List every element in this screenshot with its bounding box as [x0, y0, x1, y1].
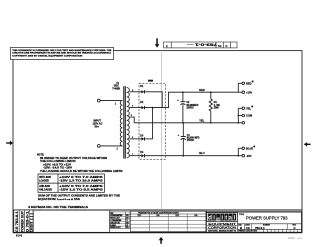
svg-text:TITLE: TITLE: [239, 214, 245, 216]
title block: [206, 212, 302, 233]
tap wire to D2 (pin 4): [129, 107, 141, 109]
blank field box: [33, 210, 110, 233]
drawing border: [13, 51, 302, 233]
svg-text:THIS SCHEMATIC IS FURNISHED ON: THIS SCHEMATIC IS FURNISHED ONLY FOR TES…: [12, 49, 112, 52]
label MR1 (smudged): [148, 80, 153, 82]
size code number rev row: [237, 223, 301, 225]
svg-text:COPYRIGHT 1969 BY DIGITAL EQUI: COPYRIGHT 1969 BY DIGITAL EQUIPMENT CORP…: [12, 54, 83, 57]
svg-text:15VDC: 15VDC: [187, 140, 195, 142]
svg-text:25VDC: 25VDC: [186, 108, 194, 110]
svg-text:-15V 1.0 TO 8.5 AMPS: -15V 1.0 TO 8.5 AMPS: [59, 189, 103, 192]
ghost smudge under border right: [288, 237, 295, 239]
svg-text:POWER SUPPLY 783: POWER SUPPLY 783: [246, 216, 288, 221]
svg-text:CIRCUITS ARE PROPRIETARY IN NA: CIRCUITS ARE PROPRIETARY IN NATURE AND S…: [12, 52, 111, 55]
svg-text:T-408B: T-408B: [112, 87, 120, 90]
svg-text:CS 783-0-1: CS 783-0-1: [15, 211, 19, 232]
wire D2 output to RED jog up: [145, 92, 183, 107]
svg-text:783-0-1 —: 783-0-1 —: [186, 42, 217, 46]
svg-text:-15V: -14.5 TO -16V: -15V: -14.5 TO -16V: [43, 166, 73, 169]
svg-text:+10V: +9.5 TO +11V: +10V: +9.5 TO +11V: [43, 165, 72, 167]
svg-text:SUM OF THE OUTPUT CURRENTS ARE: SUM OF THE OUTPUT CURRENTS ARE LIMITED B…: [38, 195, 121, 198]
transformer T1 secondary winding: [127, 88, 130, 158]
svg-text:NOTE:: NOTE:: [37, 155, 44, 157]
transistor & diode conversion chart: [130, 211, 206, 231]
inverted number strip (top edge): [164, 42, 237, 48]
bottom strip separator line: [13, 209, 302, 211]
svg-text:RED: RED: [199, 88, 205, 92]
center tap wire (pin 5) to YEL: [129, 117, 134, 123]
input terminal 1: [97, 99, 100, 102]
output bus riser top: [237, 83, 239, 92]
tap wire to D1 (pin 3): [129, 91, 141, 93]
equipment corporation rows: [207, 221, 238, 223]
note: sum of output currents: [38, 195, 121, 202]
svg-text:+10V: +10V: [246, 90, 252, 94]
diode D1: [140, 86, 144, 93]
svg-text:-15V 1.3 TO 10.0 AMPS: -15V 1.3 TO 10.0 AMPS: [59, 180, 103, 183]
capacitor C1: [178, 123, 200, 156]
terminal +10V: [238, 91, 242, 93]
svg-text:YEL: YEL: [246, 107, 251, 111]
fold marker arrow (bottom, pointing up): [159, 237, 164, 244]
output bus riser bottom: [237, 148, 239, 155]
digital logo: [207, 213, 238, 222]
reference drawings table: [110, 212, 130, 229]
transformer T1 primary winding: [120, 101, 122, 146]
svg-text:+10V 0 TO 7.0 AMPS: +10V 0 TO 7.0 AMPS: [59, 185, 103, 188]
transformer T1 core: [123, 86, 125, 158]
output bus riser middle: [237, 108, 239, 123]
resistor R1: [209, 92, 219, 123]
svg-text:-15V: -15V: [246, 154, 252, 158]
wire RED bus: [183, 91, 238, 93]
svg-text:LOADED: LOADED: [39, 180, 49, 183]
tap wire to D4 (pin 7): [129, 155, 141, 157]
svg-text:BLUE: BLUE: [246, 147, 253, 151]
wire input top: [100, 100, 122, 102]
wire input bottom: [100, 145, 122, 147]
rectifier assembly dashed box: [139, 83, 165, 159]
tap wire to D3 (pin 6): [129, 138, 141, 140]
svg-text:COM: COM: [246, 114, 252, 118]
notice box: [11, 47, 114, 59]
svg-text:THE LOADING SHOULD BE WITHIN T: THE LOADING SHOULD BE WITHIN THE FOLLOWI…: [40, 170, 123, 173]
junction D2/D3 riser: [152, 107, 154, 109]
svg-text:4 RETMA8 NO. ON THE TERMINALS: 4 RETMA8 NO. ON THE TERMINALS: [28, 206, 89, 209]
label INPUT 115V AC: [93, 120, 103, 129]
input terminal 2: [97, 145, 100, 148]
printed circuit rev row: [237, 228, 301, 230]
svg-text:WITH 8208: WITH 8208: [39, 177, 51, 179]
svg-text:RED: RED: [246, 82, 252, 86]
fold marker arrow (left, pointing right): [6, 141, 13, 145]
wire YEL bus: [134, 122, 238, 124]
svg-text:35,000MFD: 35,000MFD: [186, 105, 198, 107]
svg-text:AND 8208: AND 8208: [39, 185, 50, 188]
fold marker arrow (right, pointing left): [304, 142, 311, 146]
svg-text:EQUATION: I₊₁₀+I₋₁₅ ≤ 15A: EQUATION: I₊₁₀+I₋₁₅ ≤ 15A: [38, 198, 80, 201]
terminal -15V: [238, 155, 242, 157]
svg-text:25W: 25W: [214, 108, 220, 110]
svg-text:2, 5%: 2, 5%: [214, 105, 220, 107]
svg-text:8 3·8: 8 3·8: [16, 234, 22, 238]
svg-text:WIRED ASSY: WIRED ASSY: [110, 226, 121, 229]
svg-text:POWER SUP: POWER SUP: [21, 210, 25, 232]
capacitor C2: [177, 92, 199, 123]
loading limits table: [38, 174, 105, 192]
wire D1 output jog down: [145, 92, 162, 108]
svg-text:THE FOLLOWING LIMITS:: THE FOLLOWING LIMITS:: [40, 161, 76, 163]
diode D3: [140, 135, 144, 140]
transformer T1 label: [112, 82, 120, 91]
svg-text:d: d: [208, 215, 212, 221]
note text block: [37, 155, 123, 174]
fold crease line (vertical): [161, 52, 163, 209]
terminal spare: [238, 122, 242, 124]
drawing number vertical block (bottom-left): [14, 210, 34, 233]
bottom border emphasis: [13, 232, 302, 234]
terminal RED: [238, 82, 242, 84]
svg-text:BLU: BLU: [199, 151, 204, 155]
svg-text:+10V 0 TO 7.0 AMPS: +10V 0 TO 7.0 AMPS: [59, 176, 103, 179]
svg-text:783: 783: [126, 227, 129, 229]
terminal BLUE: [238, 147, 242, 149]
wire BLU bus: [145, 155, 238, 157]
svg-text:YEL: YEL: [199, 119, 204, 123]
svg-text:IN ORDER TO KEEP OUTPUT VOLTAG: IN ORDER TO KEEP OUTPUT VOLTAGE WITHIN: [40, 157, 107, 160]
wire D3 output: [145, 138, 153, 140]
svg-text:SC: SC: [218, 44, 222, 48]
diode D4: [140, 151, 144, 157]
svg-text:D: D: [226, 44, 228, 48]
svg-text:UNLOADED: UNLOADED: [39, 189, 52, 192]
svg-text:t: t: [225, 215, 227, 221]
svg-text:80,000 MFD: 80,000 MFD: [187, 138, 200, 140]
terminal YEL: [238, 107, 242, 109]
diode D2: [140, 102, 144, 109]
terminal COM: [238, 115, 242, 117]
fold marker arrow (top, pointing down): [155, 38, 160, 47]
